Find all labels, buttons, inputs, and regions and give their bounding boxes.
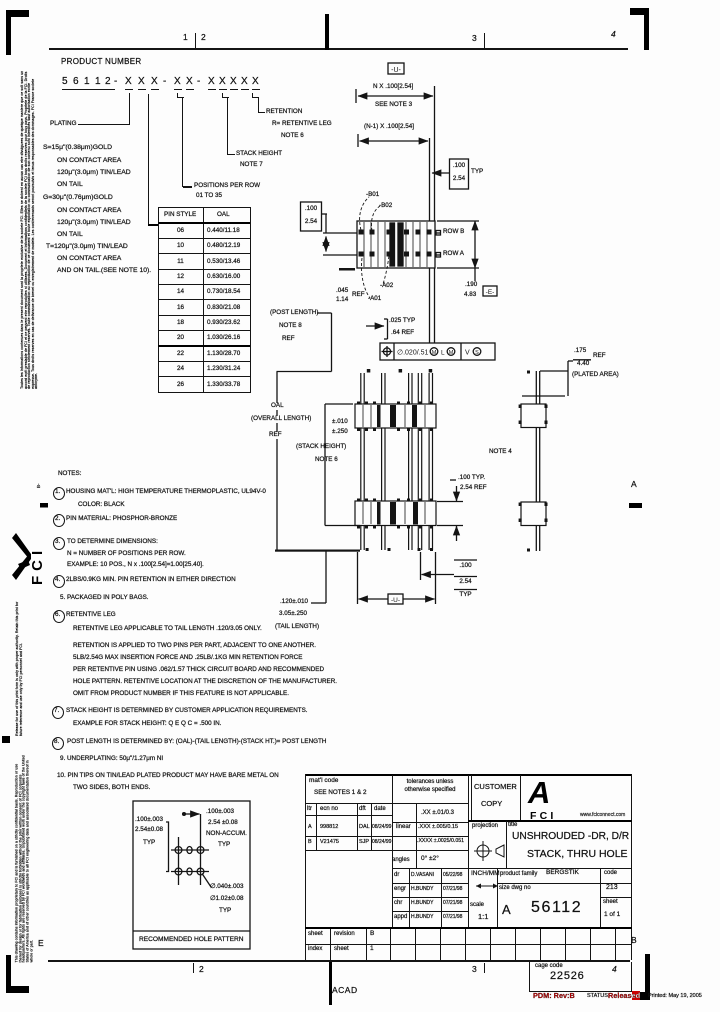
svg-text:-U-: -U- <box>391 67 401 74</box>
svg-text:M: M <box>432 350 437 356</box>
svg-text:FCI: FCI <box>530 810 557 822</box>
svg-text:M: M <box>449 350 454 356</box>
svg-text:∅.020/.51: ∅.020/.51 <box>397 350 429 357</box>
svg-text:A: A <box>527 775 550 810</box>
svg-text:S: S <box>475 350 479 356</box>
svg-text:-U-: -U- <box>391 597 400 604</box>
svg-text:-E-: -E- <box>486 289 495 296</box>
svg-text:V: V <box>465 350 470 357</box>
svg-text:L: L <box>441 350 445 357</box>
